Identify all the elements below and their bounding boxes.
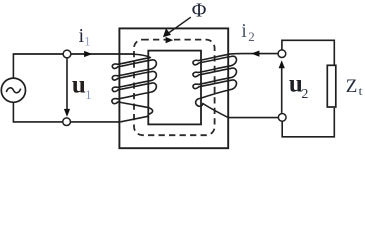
AC source xyxy=(1,78,25,102)
svg-text:i: i xyxy=(241,21,247,42)
transformer core outer boundary xyxy=(119,28,228,148)
wire: bottom-right branch to load xyxy=(282,108,334,137)
svg-text:2: 2 xyxy=(301,87,308,102)
voltage arrow u2 (pointing up) xyxy=(281,67,283,113)
terminal top-left xyxy=(63,50,71,58)
winding W2 (secondary coil) xyxy=(193,54,282,118)
terminal bottom-right xyxy=(278,114,286,122)
svg-text:1: 1 xyxy=(84,34,91,49)
svg-text:2: 2 xyxy=(248,29,255,44)
current arrow i1 xyxy=(84,51,92,57)
wire: source bottom riser + bottom-left rail xyxy=(13,102,120,122)
current arrow i2 xyxy=(251,51,259,57)
svg-text:Φ: Φ xyxy=(192,0,207,22)
flux path (dashed) xyxy=(134,40,215,136)
wire: source top riser + top-left rail xyxy=(13,54,135,78)
wire: top-right branch to load xyxy=(282,40,334,65)
load impedance Z xyxy=(327,65,336,107)
svg-text:1: 1 xyxy=(85,88,91,102)
transformer core window xyxy=(148,51,201,125)
wire: bottom-right rail xyxy=(228,117,278,119)
terminal top-right xyxy=(278,50,286,58)
svg-text:Z: Z xyxy=(346,76,358,97)
voltage arrow u1 (pointing down) xyxy=(66,59,68,111)
terminal bottom-left xyxy=(63,118,71,126)
flux direction arrowhead xyxy=(166,37,174,43)
phi pointer arrow xyxy=(167,17,191,34)
svg-text:u: u xyxy=(72,71,86,98)
winding W1 (primary coil) xyxy=(13,54,156,122)
AC source sine symbol xyxy=(6,88,20,93)
